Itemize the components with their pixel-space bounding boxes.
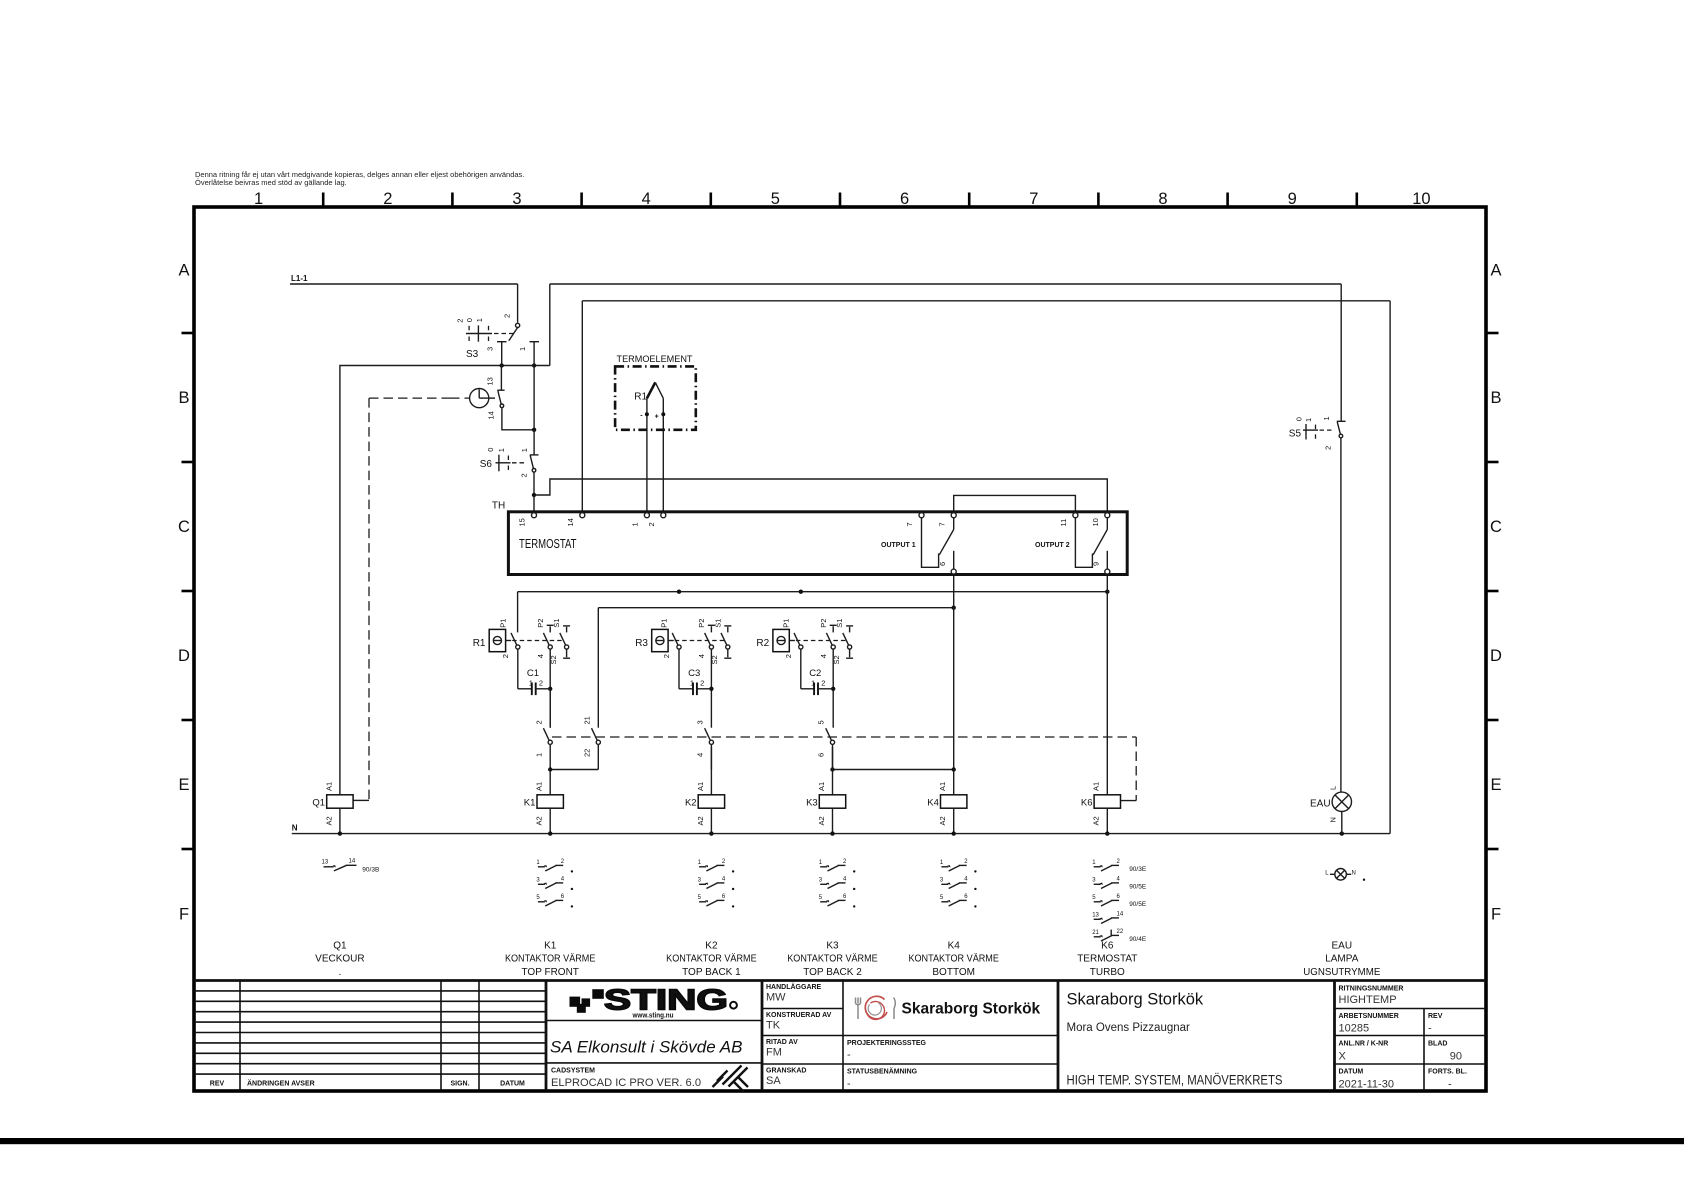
svg-text:K3: K3 [826,940,839,951]
svg-text:21: 21 [1092,930,1099,936]
svg-text:R1: R1 [634,392,647,403]
svg-text:PROJEKTERINGSSTEG: PROJEKTERINGSSTEG [847,1040,927,1047]
svg-text:10: 10 [1091,518,1100,526]
svg-text:15: 15 [518,518,527,526]
svg-text:E: E [178,776,189,794]
name label K1 [505,940,596,978]
wire N rail [292,824,1390,836]
svg-text:A1: A1 [324,782,333,791]
svg-text:10: 10 [1412,190,1430,208]
svg-text:N: N [1352,871,1356,877]
thermostat pin 1 [631,513,650,527]
contact 5-6 of K6 [817,720,835,769]
svg-text:Q1: Q1 [312,797,325,808]
svg-text:S3: S3 [466,349,479,360]
svg-text:S5: S5 [1289,428,1302,439]
svg-text:KONSTRUERAD AV: KONSTRUERAD AV [766,1012,832,1019]
svg-text:A2: A2 [817,816,826,825]
svg-text:R2: R2 [756,638,769,649]
svg-text:2: 2 [821,679,825,688]
svg-text:A2: A2 [938,816,947,825]
wire S3 pin1 riser [549,284,551,366]
wire thermocouple minus to TH pin1 [646,414,648,512]
svg-text:S1: S1 [713,619,722,628]
svg-text:+: + [655,414,659,421]
svg-text:K6: K6 [1101,940,1114,951]
svg-text:ANL.NR / K-NR: ANL.NR / K-NR [1339,1041,1389,1048]
svg-text:A1: A1 [535,782,544,791]
customer / drawing description [1067,991,1283,1088]
svg-text:MW: MW [766,992,786,1004]
svg-text:2: 2 [700,679,704,688]
svg-text:90/3B: 90/3B [362,866,379,873]
svg-text:ELPROCAD IC PRO VER. 6.0: ELPROCAD IC PRO VER. 6.0 [551,1077,701,1089]
svg-text:13: 13 [1092,913,1099,919]
svg-text:TH: TH [492,501,505,512]
svg-text:4: 4 [819,654,828,658]
svg-text:S2: S2 [832,655,841,664]
svg-text:2: 2 [662,654,671,658]
svg-text:R1: R1 [473,638,486,649]
svg-text:2: 2 [501,654,510,658]
coil K2 contactor [685,782,725,834]
thermostat pin 7 [905,513,924,527]
wire down to S6 pin1 [533,430,535,455]
row ruler [178,262,1502,924]
svg-text:F: F [179,906,189,924]
switch S6 [480,448,539,478]
thermostat head R3 [635,619,731,728]
wire TH pin14 to right drop [582,300,1390,302]
thermostat OUTPUT2 contact [1075,518,1109,575]
svg-text:A2: A2 [696,816,705,825]
svg-text:0: 0 [486,448,495,452]
svg-text:KONTAKTOR VÄRME: KONTAKTOR VÄRME [908,953,999,965]
svg-text:2: 2 [519,473,528,477]
wire timer contact 14 to S6 node [502,408,536,432]
svg-text:22: 22 [583,749,592,757]
svg-text:2: 2 [539,679,543,688]
svg-text:11: 11 [1059,519,1068,527]
svg-text:2: 2 [503,314,512,318]
project cells [847,1040,927,1090]
svg-text:5: 5 [817,720,826,724]
svg-text:K1: K1 [524,797,536,808]
svg-text:2: 2 [1323,446,1332,450]
wire to K2 coil [710,747,712,795]
name label K2 [666,940,757,978]
aux contact refs K2 [698,859,735,907]
SA Elkonsult [550,1038,742,1057]
contact 2-1 of K6 [534,720,552,769]
svg-text:0: 0 [1295,417,1304,421]
copyright note [195,170,524,187]
contact 3-4 of K6 [696,720,714,769]
svg-text:A2: A2 [1092,816,1101,825]
svg-text:TERMOSTAT: TERMOSTAT [519,536,577,551]
switch S3 [456,314,540,366]
svg-text:TOP BACK 2: TOP BACK 2 [803,967,862,978]
wire S3 output to Q1 [340,363,550,795]
svg-text:KONTAKTOR VÄRME: KONTAKTOR VÄRME [666,953,757,965]
svg-text:A1: A1 [696,782,705,791]
coil K3 contactor [806,782,846,834]
svg-text:1: 1 [518,347,527,351]
svg-text:ARBETSNUMMER: ARBETSNUMMER [1339,1013,1399,1020]
wire TH pin9 down to K6 [1106,575,1108,795]
svg-text:4: 4 [536,654,545,658]
svg-text:KONTAKTOR VÄRME: KONTAKTOR VÄRME [787,953,878,965]
svg-text:P2: P2 [819,619,828,628]
mech linkage K6 (dashed) [552,737,1136,801]
lamp ref EAU [1325,869,1365,881]
svg-text:S1: S1 [835,619,844,628]
svg-text:GRANSKAD: GRANSKAD [766,1068,806,1075]
svg-text:P1: P1 [660,619,669,628]
svg-text:TOP BACK 1: TOP BACK 1 [682,967,741,978]
svg-text:0: 0 [465,318,474,322]
svg-text:2: 2 [647,522,656,526]
svg-text:C3: C3 [688,668,700,679]
wire S3 pin1 down to S6 node [533,366,535,430]
svg-text:TERMOSTAT: TERMOSTAT [1077,954,1137,965]
svg-text:FORTS. BL.: FORTS. BL. [1428,1069,1467,1076]
svg-text:K3: K3 [806,797,818,808]
svg-text:2021-11-30: 2021-11-30 [1339,1079,1394,1091]
svg-text:HIGHTEMP: HIGHTEMP [1339,994,1397,1006]
coil K4 contactor [927,782,967,834]
svg-text:VECKOUR: VECKOUR [315,954,364,965]
svg-text:S2: S2 [710,655,719,664]
svg-text:A2: A2 [324,816,333,825]
svg-text:X: X [1339,1051,1347,1063]
wire TH pin7 jumper to pin11 [954,495,1076,512]
svg-text:3: 3 [485,347,494,351]
contact 21-22 of K6 [583,716,601,769]
svg-text:STATUSBENÄMNING: STATUSBENÄMNING [847,1068,918,1076]
wire thermocouple plus to TH pin2 [662,414,664,512]
svg-text:14: 14 [566,518,575,526]
svg-text:K4: K4 [948,940,961,951]
svg-text:TURBO: TURBO [1090,967,1125,978]
svg-text:B: B [178,389,189,407]
svg-text:N: N [1328,817,1337,822]
svg-text:REV: REV [210,1081,225,1088]
wire rail from TH pin9 (P1 rail) [518,590,1110,633]
capacitor C3 [688,668,711,695]
svg-text:14: 14 [349,859,356,865]
svg-text:-: - [847,1049,851,1061]
aux contact refs K1 [536,859,573,907]
svg-text:A1: A1 [817,782,826,791]
svg-text:TK: TK [766,1020,781,1032]
mech linkage Q1 (dashed) [353,398,470,800]
svg-text:B: B [1490,389,1501,407]
wire right vertical drop to N [1389,301,1391,834]
svg-text:Mora Ovens Pizzaugnar: Mora Ovens Pizzaugnar [1067,1022,1191,1034]
wire S6 pin2 to TH pin15 and branch [532,472,1108,512]
svg-text:4: 4 [697,654,706,658]
thermostat TH box [492,501,1127,575]
Skaraborg Storkok logo [856,996,1041,1019]
svg-text:1: 1 [254,190,263,208]
svg-text:S2: S2 [549,655,558,664]
thermostat pin 2 [647,513,666,527]
svg-text:P2: P2 [697,619,706,628]
timer contact 13-14 of Q1 [470,366,505,420]
aux contact refs K4 [940,859,977,907]
svg-text:90: 90 [1450,1051,1462,1063]
wire 21/22 return to K1 [548,767,598,771]
svg-text:C: C [1490,518,1502,536]
svg-text:L: L [1328,786,1337,790]
svg-text:14: 14 [1117,912,1124,918]
svg-text:TERMOELEMENT: TERMOELEMENT [617,354,693,365]
svg-text:E: E [1490,776,1501,794]
svg-text:90/5E: 90/5E [1129,884,1147,891]
svg-text:BOTTOM: BOTTOM [932,967,975,978]
svg-text:1: 1 [631,522,640,526]
svg-text:P1: P1 [781,619,790,628]
svg-text:9: 9 [1091,562,1100,566]
wire rail from TH pin6 [598,606,956,728]
svg-text:TOP FRONT: TOP FRONT [521,967,578,978]
svg-text:Skaraborg Storkök: Skaraborg Storkök [1067,991,1204,1009]
svg-text:HANDLÄGGARE: HANDLÄGGARE [766,983,822,991]
svg-text:13: 13 [322,860,329,866]
svg-text:F: F [1491,906,1501,924]
svg-text:RITAD AV: RITAD AV [766,1039,798,1046]
drawing number cells [1339,986,1467,1091]
svg-text:90/4E: 90/4E [1129,936,1147,943]
wire L1-1 feed [290,283,518,285]
svg-text:1: 1 [1322,416,1331,420]
svg-text:OUTPUT 2: OUTPUT 2 [1035,542,1070,549]
thermostat pin 10 [1091,513,1110,527]
svg-text:.: . [339,967,342,978]
wire TH pin14 drop [581,301,583,513]
svg-text:CADSYSTEM: CADSYSTEM [551,1068,595,1075]
svg-text:1: 1 [520,448,529,452]
svg-text:C1: C1 [527,668,539,679]
svg-text:6: 6 [938,562,947,566]
svg-text:4: 4 [696,753,705,757]
switch S5 [1289,284,1346,792]
name label K3 [787,940,878,978]
name label K4 [908,940,999,978]
svg-text:K2: K2 [685,797,697,808]
svg-text:SIGN.: SIGN. [450,1081,469,1088]
wire top rail to S5 [550,283,1341,285]
svg-text:UGNSUTRYMME: UGNSUTRYMME [1303,967,1380,978]
svg-text:SA Elkonsult i Skövde AB: SA Elkonsult i Skövde AB [550,1038,742,1057]
svg-text:OUTPUT 1: OUTPUT 1 [881,542,916,549]
svg-text:K4: K4 [927,797,939,808]
svg-text:Q1: Q1 [333,940,347,951]
svg-text:A2: A2 [535,816,544,825]
svg-text:4: 4 [642,190,651,208]
svg-text:2: 2 [383,190,392,208]
svg-text:6: 6 [817,753,826,757]
svg-text:9: 9 [1288,190,1297,208]
svg-text:A: A [178,262,189,280]
thermostat pin 14 [566,513,585,527]
svg-text:22: 22 [1117,929,1124,935]
lamp EAU [1310,786,1352,834]
aux contact refs K6 [1092,859,1147,943]
svg-text:P2: P2 [536,619,545,628]
title block grid [194,981,1486,1091]
svg-text:1: 1 [497,448,506,452]
wire K1 branch [549,689,551,728]
coil K6 contactor [1081,782,1121,834]
svg-text:K1: K1 [544,940,557,951]
svg-text:C: C [178,518,190,536]
svg-text:-: - [1428,1023,1432,1035]
thermostat pin 15 [518,513,537,527]
svg-text:R3: R3 [635,638,648,649]
aux contact refs Q1 [322,859,380,874]
name label EAU [1303,940,1380,978]
svg-text:K2: K2 [705,940,718,951]
svg-text:1: 1 [534,753,543,757]
svg-text:7: 7 [905,522,914,526]
svg-text:13: 13 [486,377,495,385]
svg-text:Skaraborg Storkök: Skaraborg Storkök [902,1001,1041,1018]
svg-text:L1-1: L1-1 [291,274,308,283]
revision table header [210,1080,525,1088]
wire into S3 pin2 [517,284,519,323]
svg-text:K6: K6 [1081,797,1093,808]
coil Q1 week timer [312,782,353,834]
svg-text:HIGH TEMP. SYSTEM, MANÖVERKRET: HIGH TEMP. SYSTEM, MANÖVERKRETS [1067,1073,1283,1088]
svg-text:REV: REV [1428,1013,1443,1020]
svg-text:D: D [1490,647,1502,665]
wire TH pin6 down to K4 [953,575,955,795]
svg-text:1: 1 [1304,418,1313,422]
approval cells [766,983,832,1087]
svg-text:C2: C2 [809,668,821,679]
svg-text:N: N [292,824,298,833]
wire to K1 coil [549,770,551,795]
wire to K3 coil [832,747,834,795]
svg-text:90/3E: 90/3E [1129,866,1147,873]
svg-text:RITNINGSNUMMER: RITNINGSNUMMER [1339,986,1404,993]
coil K1 contactor [524,782,564,834]
svg-text:8: 8 [1158,190,1167,208]
svg-text:DATUM: DATUM [1339,1069,1364,1076]
svg-text:10285: 10285 [1339,1023,1370,1035]
svg-text:KONTAKTOR VÄRME: KONTAKTOR VÄRME [505,953,596,965]
page bottom rule [0,1138,1684,1144]
svg-text:21: 21 [583,716,592,724]
svg-text:A1: A1 [938,782,947,791]
svg-text:DATUM: DATUM [500,1081,525,1088]
wire K3 branch to K4 [830,767,956,771]
svg-text:14: 14 [486,411,495,419]
termoelement box [615,354,696,430]
svg-text:SA: SA [766,1075,781,1087]
svg-text:BLAD: BLAD [1428,1041,1447,1048]
svg-text:A1: A1 [1092,782,1101,791]
capacitor C2 [809,668,832,695]
svg-text:90/5E: 90/5E [1129,901,1147,908]
name label K6 [1077,940,1137,978]
svg-text:www.sting.nu: www.sting.nu [632,1013,674,1020]
column ruler [254,190,1431,208]
svg-text:S1: S1 [552,619,561,628]
svg-text:D: D [178,647,190,665]
thermostat head R1 [473,619,570,728]
svg-text:5: 5 [771,190,780,208]
svg-text:EAU: EAU [1310,799,1331,810]
STING logo [570,985,737,1020]
thermostat OUTPUT1 contact [922,518,957,575]
svg-text:2: 2 [784,654,793,658]
svg-text:7: 7 [937,522,946,526]
svg-text:EAU: EAU [1332,940,1353,951]
svg-text:3: 3 [512,190,521,208]
CADSYSTEM cell [551,1068,701,1090]
svg-text:P1: P1 [498,619,507,628]
svg-text:S6: S6 [480,459,493,470]
svg-text:6: 6 [900,190,909,208]
svg-text:ÄNDRINGEN AVSER: ÄNDRINGEN AVSER [247,1080,315,1088]
aux contact refs K3 [819,859,856,907]
thermostat pin 11 [1059,513,1078,527]
svg-text:-: - [847,1078,851,1090]
svg-text:7: 7 [1029,190,1038,208]
thermostat pin 7 [937,513,956,527]
svg-text:LAMPA: LAMPA [1325,954,1358,965]
svg-text:-: - [1448,1079,1452,1091]
name label Q1 [315,940,364,978]
thermostat head R2 [756,619,853,728]
svg-text:FM: FM [766,1047,782,1059]
svg-text:2: 2 [456,319,465,323]
thermocouple R1 [634,382,665,420]
drawing frame [194,207,1486,1091]
svg-text:3: 3 [696,720,705,724]
svg-text:2: 2 [534,720,543,724]
svg-text:Överlåtelse beivras med stöd a: Överlåtelse beivras med stöd av gällande… [195,178,347,187]
svg-text:1: 1 [475,318,484,322]
capacitor C1 [527,668,550,695]
svg-text:A: A [1490,262,1501,280]
elprocad hatch icon [713,1066,749,1092]
